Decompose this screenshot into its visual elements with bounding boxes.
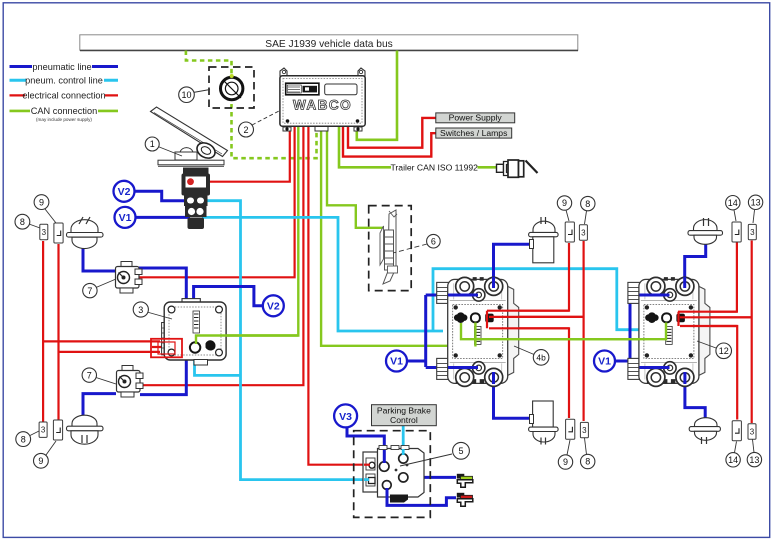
electrical wire: modulator 12 pin to connectors 13 [680, 241, 752, 424]
svg-text:7: 7 [87, 286, 92, 296]
svg-text:electrical connection: electrical connection [22, 91, 105, 101]
svg-text:8: 8 [585, 199, 590, 209]
svg-text:Parking Brake: Parking Brake [377, 406, 431, 416]
brake chamber top-right [688, 218, 723, 244]
label circle 9 bottom-middle [558, 440, 572, 469]
red pin bracket modulator 4b [486, 311, 488, 329]
sensor connector 8 bottom-middle [580, 422, 588, 437]
svg-text:9: 9 [38, 456, 43, 466]
CAN wire dashed: connector 10 to ECU [232, 104, 317, 158]
node V1 (modulator 12) [594, 351, 615, 372]
diagnostic connector 10 symbol [221, 74, 243, 100]
pneumatic wire: V1 label to modulator 12 [614, 295, 665, 368]
red pin bracket modulator 12 [677, 312, 679, 326]
release valve 7b [117, 366, 144, 398]
svg-text:8: 8 [585, 457, 590, 467]
svg-text:10: 10 [181, 90, 191, 100]
electrical wire: modulator 12 pin to top connector 14 [678, 243, 737, 312]
electrical wire: ECU down to valve 7b [136, 127, 303, 385]
svg-text:Trailer CAN ISO 11992: Trailer CAN ISO 11992 [391, 162, 479, 172]
electrical wire: ECU down to parking valve 5 [308, 127, 372, 465]
wire overlay: pneumatic into modulator 12 ports [640, 295, 670, 368]
label circle 5 [400, 442, 469, 466]
label circle 9 top-left [34, 195, 49, 210]
svg-text:Control: Control [390, 415, 418, 425]
brake chamber bottom-middle [529, 401, 559, 445]
node V2 (module 3) [263, 295, 284, 316]
pneumatic wire: parking valve to service coupling [407, 476, 456, 479]
wire overlay: electrical pins modulator 12 [678, 312, 752, 326]
label circle 7 (valve 7a) [83, 279, 116, 298]
wire overlay: electrical pins modulator 4b [487, 311, 584, 329]
label circle 1 [145, 137, 182, 156]
svg-text:7: 7 [87, 370, 92, 380]
CAN wire: modulator 4b to modulator 12 [461, 322, 666, 339]
svg-text:6: 6 [431, 236, 436, 246]
pneumatic wire: V1 label to modulator 4b [406, 295, 474, 368]
electrical wire: foot valve to ECU [190, 127, 290, 182]
svg-text:V2: V2 [118, 186, 131, 198]
label circle 8 top-left [15, 214, 30, 229]
wire overlay: supply stub out of parking valve [386, 488, 389, 505]
pneumatic wire: valve 7a to module 3 [139, 268, 186, 300]
legend pneumatic line [10, 61, 119, 72]
electrical wire: left connectors 8 riser to module 3 [43, 241, 160, 422]
electrical wire: modulator 12 pin to bottom connector 14 [680, 326, 737, 420]
label circle 3 [133, 302, 172, 319]
svg-text:2: 2 [243, 125, 248, 135]
air spring connector 14 top-right [732, 222, 741, 242]
svg-text:9: 9 [562, 198, 567, 208]
brake chamber bottom-right [689, 418, 720, 444]
electrical wire: modulator 4b pin to connectors 8 [489, 241, 584, 421]
svg-text:WABCO: WABCO [293, 98, 352, 113]
svg-text:12: 12 [719, 346, 729, 356]
wire overlay: electrical stub into parking valve [364, 464, 370, 466]
CAN wire: ECU down to modulator 4b [321, 127, 475, 346]
svg-text:9: 9 [39, 197, 44, 207]
supply coupling head (red) [457, 493, 473, 507]
electrical wire: ECU to Switches/Lamps [343, 127, 436, 157]
pneumatic wire: modulator 12 to bottom brake chamber [685, 382, 705, 421]
pneumatic wire: parking valve to supply coupling [387, 487, 456, 505]
electrical wire: modulator 4b pin to bottom connector 9 [489, 328, 569, 418]
legend CAN connection [10, 105, 119, 123]
sensor connector 13 bottom-right [748, 424, 756, 439]
wire overlay: CAN stub into modulator 4b [474, 323, 476, 347]
legend electrical connection [10, 90, 119, 101]
label circle 7 (valve 7b) [82, 368, 116, 384]
air spring connector 9 top-middle [565, 222, 574, 242]
svg-text:13: 13 [751, 198, 761, 208]
Switches / Lamps box [436, 128, 512, 138]
label circle 10 [179, 87, 210, 103]
sensor connector 8 top-left [29, 224, 48, 240]
svg-text:V1: V1 [390, 356, 403, 368]
CAN wire: ECU down to module 3 [196, 127, 298, 344]
pneumatic wire: modulator 4b to top brake chamber [494, 244, 530, 281]
node V1 (foot valve) [115, 207, 136, 228]
svg-text:14: 14 [728, 455, 738, 465]
service coupling head (yellow) [457, 474, 473, 488]
lift axle sensor 6 dashed box [369, 206, 412, 291]
electrical wire: left connectors 9 riser to module 3 [59, 244, 161, 420]
foot brake valve 1 [151, 107, 228, 229]
electrical wire: modulator 4b pin to top connector 9 [487, 243, 569, 311]
Trailer CAN plug connector [497, 160, 538, 177]
label circle 13 top-right [748, 195, 762, 223]
CAN wire: ECU to Trailer CAN ISO 11992 connector [339, 127, 391, 167]
SAE J1939 vehicle data bus box [80, 35, 578, 51]
pneumatic wire: modulator 12 to top brake chamber [685, 244, 706, 281]
parking release valve 5 [363, 446, 424, 503]
svg-text:1: 1 [150, 139, 155, 149]
svg-text:pneum. control line: pneum. control line [25, 76, 103, 86]
label circle 8 top-middle [581, 196, 595, 224]
pneumatic wire: spring chamber to valve 7a [83, 245, 116, 271]
electrical wire: module 3 middle pin [152, 346, 172, 348]
wire overlay: CAN into module 3 port [196, 336, 298, 345]
air spring connector 9 bottom-left [53, 420, 62, 440]
svg-text:Power Supply: Power Supply [449, 113, 503, 123]
label circle 8 bottom-middle [581, 438, 595, 469]
air spring connector 14 bottom-right [732, 421, 741, 441]
wire overlay: control stub into parking valve left port [364, 478, 369, 481]
label circle 14 top-right [726, 196, 740, 222]
pneumatic wire: modulator 4b to bottom brake chamber [494, 382, 530, 418]
axle modulator 4b [437, 277, 519, 386]
svg-text:8: 8 [21, 434, 26, 444]
sensor connector 8 bottom-left [39, 422, 47, 437]
label circle 6 [393, 234, 440, 253]
svg-text:3: 3 [138, 305, 143, 315]
label circle 14 bottom-right [726, 442, 740, 467]
pneumatic wire: V2 label to foot valve [134, 191, 190, 200]
wire overlay: CAN link modulator 4b to 12 [461, 323, 666, 340]
wire overlay: pneumatic into modulator 4b ports [448, 295, 478, 368]
pneumatic wire: module 3 to valve 7b [140, 358, 186, 395]
node V3 [334, 404, 357, 427]
pneumatic wire: valve 7b to spring chamber [83, 394, 116, 419]
pneum. control wire: foot valve to modulators [202, 217, 443, 331]
svg-text:9: 9 [563, 457, 568, 467]
svg-text:V1: V1 [598, 356, 611, 368]
label circle 12 [697, 341, 732, 359]
svg-text:14: 14 [728, 198, 738, 208]
svg-text:CAN connection: CAN connection [31, 106, 97, 116]
electrical wire: ECU to Power Supply [348, 118, 436, 148]
svg-text:(may include power supply): (may include power supply) [36, 117, 92, 122]
pneumatic wire: V1 label to foot valve [135, 216, 190, 219]
svg-text:8: 8 [20, 217, 25, 227]
svg-text:V2: V2 [267, 301, 280, 313]
svg-text:Switches / Lamps: Switches / Lamps [440, 128, 507, 138]
legend pneum. control line [10, 75, 119, 86]
CAN wire dashed: bus to diagnostic connector 10 [186, 51, 232, 76]
label circle 9 top-middle [557, 196, 571, 221]
Parking Brake Control box [372, 405, 437, 426]
pneumatic wire: module 3 to V2 label [194, 287, 263, 306]
electrical wire: ECU down to valve 7a [136, 127, 295, 277]
pneumatic wire: V3 label to parking valve 5 [347, 426, 384, 463]
svg-text:V3: V3 [339, 411, 352, 423]
CAN wire: bus right drop to ECU [357, 51, 397, 140]
release valve 7a [116, 262, 143, 294]
label circle 4b [514, 346, 549, 365]
label circle 9 bottom-left [34, 441, 57, 468]
diagnostic connector 10 dashed box [209, 67, 254, 108]
label circle 2 [239, 111, 280, 137]
svg-text:4b: 4b [536, 353, 546, 363]
label circle 8 bottom-left [16, 431, 39, 447]
svg-text:pneumatic line: pneumatic line [32, 62, 91, 72]
node V1 (modulator 4b) [386, 351, 407, 372]
wire overlay: V3 stub into parking valve [383, 450, 386, 463]
svg-text:13: 13 [749, 455, 759, 465]
spring brake chamber bottom-left [67, 415, 104, 444]
module 3 red cable connector [151, 339, 182, 358]
air spring connector 9 top-left [45, 209, 63, 243]
EBS module 3 [162, 299, 227, 365]
label circle 13 bottom-right [747, 440, 761, 467]
svg-text:V1: V1 [119, 212, 132, 224]
node V2 (foot valve) [114, 181, 135, 202]
pneum. control wire: foot valve to parking valve 5 via module 3 branch [202, 201, 369, 480]
pneum. control wire: Parking Brake Control to valve 5 [402, 426, 405, 456]
parking valve 5 dashed box [354, 431, 431, 518]
lift axle sensor 6 lamella [380, 210, 398, 284]
CAN wire: ECU down to lift axle sensor 6 [327, 127, 383, 228]
axle modulator 12 [628, 277, 710, 386]
spring brake chamber top-left [67, 217, 104, 249]
air spring connector 9 bottom-middle [566, 419, 575, 439]
svg-text:SAE J1939 vehicle data bus: SAE J1939 vehicle data bus [265, 39, 392, 50]
Power Supply box [436, 113, 515, 123]
sensor connector 8 top-middle [579, 225, 587, 240]
ECU U2 WABCO [280, 68, 365, 131]
sensor connector 13 top-right [748, 224, 756, 239]
wire overlay: control stub into parking valve [402, 449, 405, 455]
svg-text:5: 5 [458, 446, 463, 456]
brake chamber top-middle [529, 217, 559, 263]
